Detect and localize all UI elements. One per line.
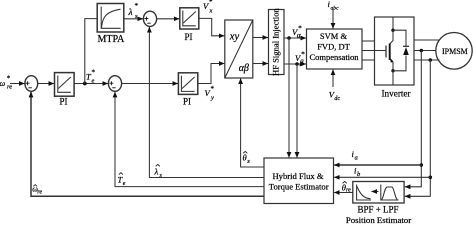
svg-text:re: re bbox=[346, 187, 351, 193]
svg-text:*: * bbox=[211, 85, 215, 93]
wire lambda_s feedback to junction 3 bbox=[149, 27, 264, 178]
svg-text:Compensation: Compensation bbox=[309, 52, 359, 62]
svg-text:y: y bbox=[210, 95, 214, 102]
wire junction1 to PI1 bbox=[38, 83, 54, 85]
svg-text:PI: PI bbox=[183, 97, 191, 107]
svg-text:e: e bbox=[92, 78, 95, 85]
svg-text:λ: λ bbox=[154, 167, 159, 177]
wire HF to SVM top (V*_alpha) bbox=[284, 37, 306, 39]
svg-text:x: x bbox=[209, 8, 213, 15]
wire i_b tap down to BPF bbox=[405, 60, 430, 196]
wire i_abc into SVM bbox=[332, 9, 334, 29]
wire MTPA to summing junction 3 bbox=[124, 18, 143, 20]
PI block PI1 (speed) bbox=[55, 73, 75, 107]
svg-text:Inverter: Inverter bbox=[382, 89, 411, 99]
svg-text:αβ: αβ bbox=[239, 63, 249, 74]
svg-text:re: re bbox=[7, 83, 12, 90]
svg-text:θ: θ bbox=[243, 153, 247, 163]
node current tap c bbox=[429, 58, 433, 62]
wire PI3 to xy block input bottom bbox=[198, 64, 225, 84]
SVM block bbox=[307, 29, 363, 69]
node theta_s label bbox=[243, 151, 251, 164]
svg-text:β: β bbox=[299, 58, 304, 67]
wire xy to HF top bbox=[253, 37, 268, 39]
svg-text:FVD, DT: FVD, DT bbox=[317, 41, 350, 51]
svg-text:MTPA: MTPA bbox=[98, 34, 126, 45]
svg-text:Torque Estimator: Torque Estimator bbox=[269, 182, 329, 192]
svg-text:re: re bbox=[37, 190, 42, 196]
svg-text:Position Estimator: Position Estimator bbox=[346, 215, 411, 225]
wire V*_alpha down to Hybrid estimator bbox=[288, 38, 290, 158]
wire i_a tap down to BPF bbox=[405, 51, 421, 187]
svg-text:abc: abc bbox=[331, 5, 340, 11]
svg-text:SVM &: SVM & bbox=[320, 31, 348, 41]
wire i_a to Hybrid estimator bbox=[334, 164, 421, 166]
wire PI2 to xy block input top bbox=[199, 18, 225, 35]
node omega*_re input label bbox=[0, 75, 12, 91]
svg-text:dc: dc bbox=[334, 96, 340, 102]
summing junction 2 (torque) bbox=[108, 76, 121, 92]
svg-text:*: * bbox=[92, 69, 96, 77]
wire PI1 to summing junction 2 bbox=[74, 83, 108, 85]
BPF + LPF position estimator block bbox=[346, 182, 411, 226]
node lambda*_s label bbox=[128, 2, 139, 20]
svg-text:λ: λ bbox=[128, 8, 133, 18]
motor IPMSM bbox=[436, 33, 472, 70]
summing junction 3 (flux) bbox=[143, 11, 156, 26]
Hybrid Flux and Torque Estimator block bbox=[264, 158, 334, 204]
node T_e label bbox=[118, 173, 126, 187]
MTPA block bbox=[97, 4, 125, 46]
wire junction3 to PI2 bbox=[157, 18, 180, 20]
node i_abc input label bbox=[328, 0, 340, 11]
node i_a junction bbox=[420, 163, 424, 167]
HF Signal Injection block bbox=[269, 8, 285, 76]
wire V*_beta down to Hybrid estimator bbox=[296, 64, 298, 158]
node i_b junction bbox=[429, 176, 433, 180]
node V*_beta tap bbox=[295, 62, 299, 66]
svg-text:xy: xy bbox=[229, 32, 240, 43]
PI block PI2 (flux) bbox=[180, 8, 199, 42]
svg-text:BPF + LPF: BPF + LPF bbox=[357, 205, 398, 215]
svg-text:e: e bbox=[123, 181, 126, 187]
node lambda_s label bbox=[154, 164, 163, 179]
svg-text:IPMSM: IPMSM bbox=[442, 47, 468, 56]
wire inverter to IPMSM phase b bbox=[414, 50, 436, 52]
wire T*_e up to MTPA bbox=[85, 19, 97, 84]
node V*_alpha tap bbox=[287, 36, 291, 40]
wire omega_re feedback to junction 1 bbox=[31, 92, 264, 196]
wire junction2 to PI3 bbox=[122, 83, 178, 85]
transform block xy/alphabeta bbox=[225, 20, 253, 78]
node V*_x label bbox=[203, 0, 213, 15]
node current tap b bbox=[420, 49, 424, 53]
summing junction 1 bbox=[25, 76, 38, 92]
svg-text:Hybrid Flux &: Hybrid Flux & bbox=[272, 171, 323, 181]
svg-text:s: s bbox=[160, 173, 163, 179]
wire omega*_re to summing junction 1 bbox=[10, 83, 24, 85]
node T*_e bbox=[83, 69, 96, 86]
svg-text:ω: ω bbox=[0, 79, 6, 88]
wire SVM to inverter (3 gate lines) bbox=[362, 40, 375, 42]
svg-text:s: s bbox=[247, 158, 250, 165]
transistor Q1 (IGBT with diode inside inverter) bbox=[375, 17, 410, 85]
node theta_re label bbox=[342, 181, 351, 193]
svg-text:*: * bbox=[135, 2, 139, 10]
inverter block bbox=[375, 17, 415, 99]
wire xy to HF bottom bbox=[253, 63, 268, 65]
wire inverter to IPMSM phase c bbox=[414, 59, 440, 61]
wire theta_s estimator to xy block bbox=[241, 79, 264, 168]
PI block PI3 (torque) bbox=[178, 73, 197, 107]
wire V_dc into SVM bbox=[332, 70, 334, 87]
wire HF to SVM bottom (V*_beta) bbox=[284, 63, 306, 65]
svg-text:PI: PI bbox=[185, 32, 193, 42]
svg-text:*: * bbox=[209, 0, 213, 6]
wire theta_re BPF to Hybrid estimator bbox=[334, 192, 353, 194]
wire i_b to Hybrid estimator bbox=[334, 176, 430, 178]
diode D1 bbox=[393, 30, 406, 46]
wire T_e feedback to junction 2 bbox=[115, 92, 264, 187]
svg-text:*: * bbox=[7, 75, 11, 83]
svg-text:a: a bbox=[355, 154, 358, 161]
wire inverter to IPMSM phase a bbox=[414, 39, 440, 41]
node V_dc input label bbox=[329, 90, 341, 102]
node omega_re label bbox=[32, 185, 42, 196]
node V*_y label bbox=[205, 85, 215, 102]
svg-text:HF Signal Injection: HF Signal Injection bbox=[271, 8, 281, 76]
svg-text:PI: PI bbox=[60, 97, 68, 107]
